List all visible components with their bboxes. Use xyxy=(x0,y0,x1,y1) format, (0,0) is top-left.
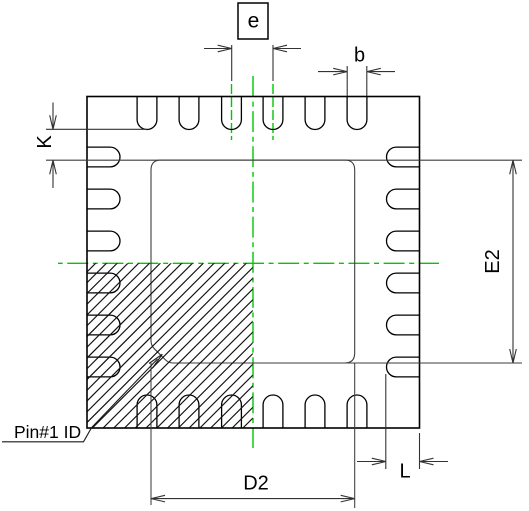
pin left #5 xyxy=(87,315,120,335)
svg-text:e: e xyxy=(248,10,260,33)
pin bottom #3 xyxy=(222,395,242,428)
pin bottom #6 xyxy=(347,395,367,428)
exposed pad D2xE2 with pin1 chamfer xyxy=(151,160,355,363)
dim b extension lines xyxy=(347,66,367,96)
node horizontal-centerline xyxy=(58,262,439,264)
pin right #5 xyxy=(387,315,420,335)
dim e extension lines xyxy=(232,45,273,81)
dim D2 dimension line xyxy=(151,498,355,500)
pin right #2 xyxy=(387,189,420,209)
dim L extension line right xyxy=(419,433,421,469)
pin top #6 xyxy=(347,97,367,130)
svg-text:Pin#1 ID: Pin#1 ID xyxy=(14,422,81,442)
dim K extension line upper xyxy=(46,128,147,130)
svg-text:K: K xyxy=(34,135,56,149)
node vertical-centerline xyxy=(252,76,254,448)
pin bottom #1 xyxy=(137,395,157,428)
dim L arrow left xyxy=(357,461,386,463)
pin top #2 xyxy=(179,97,199,130)
dim K arrow lower xyxy=(52,160,54,188)
dim e arrow left xyxy=(204,48,232,50)
pin1 ID leader xyxy=(2,359,158,442)
node pin-centerline-right xyxy=(272,84,274,140)
dim E2 dimension line xyxy=(512,160,514,363)
pin left #1 xyxy=(87,147,120,167)
pin bottom #5 xyxy=(305,395,325,428)
pin right #4 xyxy=(387,273,420,293)
dim L extension line left xyxy=(385,374,387,469)
pin top #5 xyxy=(305,97,325,130)
pin1 quadrant hatch xyxy=(0,250,421,430)
pin right #6 xyxy=(387,357,420,377)
svg-text:L: L xyxy=(399,461,410,483)
pin right #1 xyxy=(387,147,420,167)
dim e arrow right xyxy=(273,48,301,50)
dim K arrow upper xyxy=(52,103,54,130)
node pin-centerline-left xyxy=(231,84,233,140)
pin bottom #4 xyxy=(263,395,283,428)
dim b arrow right xyxy=(367,71,395,73)
pin bottom #2 xyxy=(179,395,199,428)
dim D2 extension line right xyxy=(354,363,356,508)
svg-text:E2: E2 xyxy=(482,249,504,273)
pin top #3 xyxy=(222,97,242,130)
dim K / E2 pad-top extension line xyxy=(46,159,522,161)
pin left #6 xyxy=(87,357,120,377)
dim L arrow right xyxy=(420,461,449,463)
dim E2 pad-bottom extension line xyxy=(344,362,522,364)
dim b arrow left xyxy=(318,71,347,73)
package outline body xyxy=(87,97,420,429)
pin right #3 xyxy=(387,231,420,251)
svg-text:D2: D2 xyxy=(243,473,269,495)
pin top #1 xyxy=(137,97,157,130)
pin left #4 xyxy=(87,273,120,293)
svg-text:b: b xyxy=(354,45,365,67)
dim e label box xyxy=(238,3,268,39)
pin left #2 xyxy=(87,189,120,209)
pin left #3 xyxy=(87,231,120,251)
dim D2 extension line left xyxy=(150,363,152,505)
pin top #4 xyxy=(263,97,283,130)
